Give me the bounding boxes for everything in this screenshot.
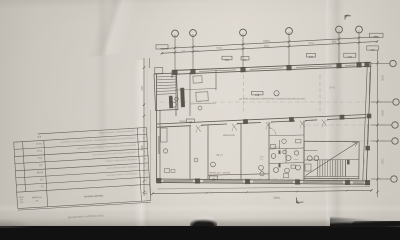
svg-text:7440: 7440 (273, 196, 280, 200)
svg-text:1-1: 1-1 (160, 47, 164, 50)
svg-text:2,1: 2,1 (40, 185, 44, 188)
svg-text:8: 8 (142, 136, 144, 138)
svg-text:1В5: 1В5 (370, 48, 375, 51)
svg-text:14,40: 14,40 (328, 86, 335, 89)
svg-text:4640: 4640 (140, 145, 143, 151)
svg-text:ОК2: ОК2 (224, 58, 229, 61)
svg-text:Наименование: Наименование (83, 194, 103, 199)
svg-text:3: 3 (144, 171, 146, 173)
svg-text:ДК1: ДК1 (254, 93, 259, 96)
svg-text:16,08: 16,08 (36, 170, 43, 173)
svg-text:коридор и лестничный холл: коридор и лестничный холл (106, 165, 138, 170)
svg-text:сануз: сануз (274, 145, 280, 147)
svg-text:Прим: Прим (18, 196, 23, 198)
svg-text:5: 5 (212, 165, 214, 167)
svg-text:м²: м² (35, 199, 38, 202)
svg-text:кухня - гостиная: кухня - гостиная (209, 171, 230, 175)
svg-text:кладовая инвентаря и белья: кладовая инвентаря и белья (105, 158, 138, 163)
svg-text:ОСА: ОСА (216, 46, 222, 50)
svg-text:17,99: 17,99 (216, 153, 223, 157)
svg-text:8,5: 8,5 (37, 135, 41, 138)
svg-text:4,75: 4,75 (203, 67, 208, 69)
svg-text:ЭкЦ: ЭкЦ (347, 55, 352, 58)
svg-text:ние: ние (20, 201, 23, 203)
svg-text:960: 960 (194, 49, 199, 53)
svg-text:14,1: 14,1 (37, 156, 43, 159)
svg-text:ТРЦ: ТРЦ (264, 44, 269, 48)
svg-text:ОК: ОК (243, 58, 247, 61)
svg-text:ОСА: ОСА (308, 41, 314, 45)
svg-text:7,6: 7,6 (39, 177, 43, 180)
svg-text:комната отдыха персонала с гар: комната отдыха персонала с гардеробной и… (76, 143, 136, 150)
svg-text:2,4: 2,4 (260, 159, 263, 161)
svg-text:Площадь: Площадь (31, 196, 41, 199)
svg-text:61,8: 61,8 (36, 142, 42, 145)
svg-text:5990: 5990 (381, 110, 385, 116)
svg-text:ОК1: ОК1 (308, 55, 313, 58)
svg-text:2409: 2409 (263, 39, 270, 43)
svg-text:3000: 3000 (381, 75, 385, 81)
svg-text:еча: еча (20, 198, 23, 200)
svg-text:1660: 1660 (363, 159, 365, 165)
svg-text:помещение охраны объекта: помещение охраны объекта (106, 172, 138, 177)
svg-text:расчётная вместимость помещени: расчётная вместимость помещения торговог… (239, 97, 305, 101)
svg-text:1119: 1119 (140, 85, 143, 91)
svg-text:11,3: 11,3 (36, 149, 41, 152)
svg-text:330: 330 (181, 50, 186, 53)
svg-text:4,9: 4,9 (39, 163, 43, 166)
svg-text:МЦ1: МЦ1 (373, 35, 379, 38)
svg-text:1190: 1190 (381, 158, 385, 164)
svg-text:тамбур: тамбур (179, 120, 187, 122)
svg-text:4: 4 (144, 164, 146, 166)
svg-text:УЗЛ: УЗЛ (260, 157, 264, 159)
svg-text:13: 13 (275, 93, 278, 95)
svg-text:948: 948 (331, 40, 336, 44)
svg-text:прихожая: прихожая (222, 134, 235, 137)
svg-text:9: 9 (142, 129, 144, 131)
svg-text:ванн: ванн (293, 158, 299, 160)
